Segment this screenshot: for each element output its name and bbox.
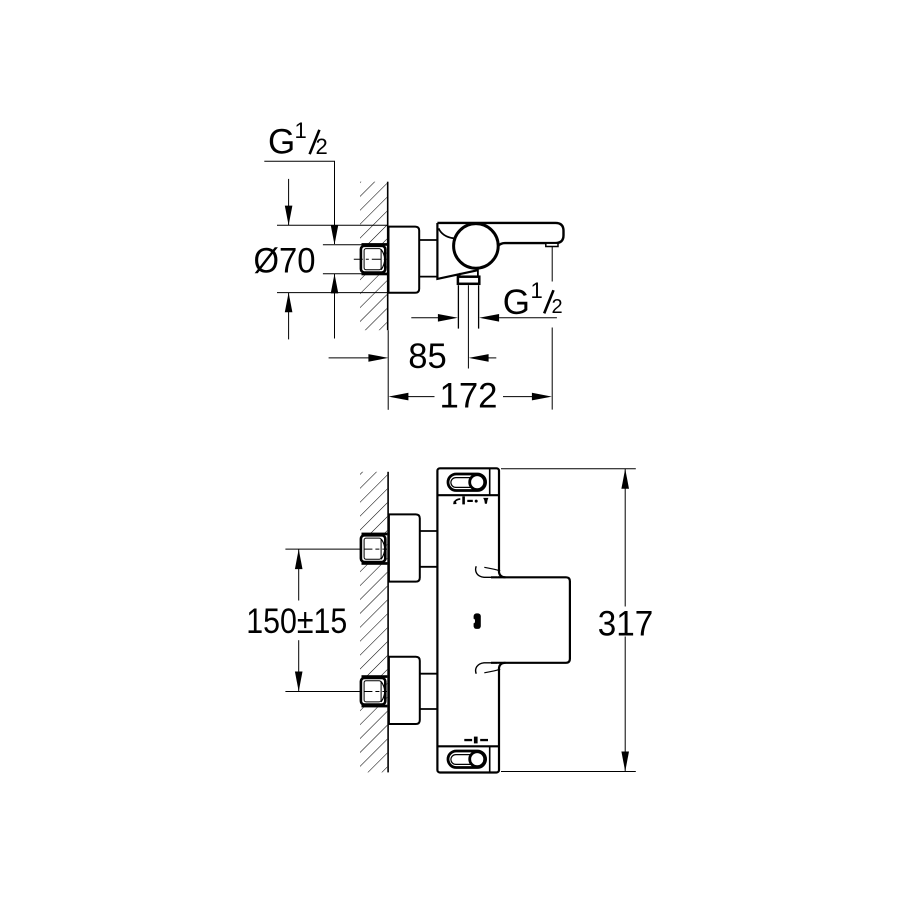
svg-text:172: 172 bbox=[440, 377, 498, 416]
inlet pipes between escutcheons and body bbox=[420, 530, 438, 532]
svg-text:1: 1 bbox=[531, 278, 543, 303]
wall extension line down to 172 dimension bbox=[388, 330, 389, 410]
leader line for G 1/2 top bbox=[264, 161, 334, 244]
Ø70 top arrow bbox=[288, 179, 290, 225]
erase body edge at T junction, draw corner fillets bbox=[497, 571, 500, 576]
temperature mark (black crescent) bbox=[474, 613, 481, 629]
G1/2 outlet dimension arrows bbox=[411, 317, 438, 319]
thermostat knob (circle, top view) bbox=[454, 224, 499, 269]
svg-text:1: 1 bbox=[295, 118, 307, 143]
toggle slider (bottom cap) bbox=[448, 751, 486, 768]
connecting pipe between escutcheon and body bbox=[419, 239, 437, 241]
icon row under top cap bbox=[454, 499, 460, 504]
svg-text:85: 85 bbox=[408, 337, 447, 376]
escutcheon top (bottom view) bbox=[389, 514, 420, 581]
wall face line (top view) bbox=[387, 182, 389, 331]
svg-text:2: 2 bbox=[552, 296, 563, 318]
cap divider verticals bbox=[489, 468, 491, 495]
lever / spout (top view) bbox=[437, 223, 563, 246]
317 dimension bbox=[501, 468, 636, 470]
eco icon above bottom cap bbox=[464, 739, 472, 741]
T-shaped spout housing (bottom view) bbox=[491, 577, 570, 663]
svg-text:150±15: 150±15 bbox=[246, 602, 347, 641]
centre/extension line through bottom nut (150 dim) bbox=[285, 691, 387, 693]
extension line nut bottom bbox=[323, 273, 387, 275]
escutcheon (wall flange, top view) bbox=[389, 227, 420, 293]
extension line escutcheon top bbox=[277, 224, 387, 226]
aerator nozzle under spout bbox=[546, 243, 558, 246]
G1/2 lower arrow (pointing up to nut bottom) bbox=[334, 274, 336, 339]
top cap separator bbox=[437, 494, 499, 496]
Ø70 bottom arrow bbox=[288, 293, 290, 340]
centre/extension line through top nut (150 dim) bbox=[285, 548, 387, 550]
main body (bottom view) bbox=[437, 468, 499, 772]
toggle slider (top cap) bbox=[448, 474, 486, 491]
svg-text:G: G bbox=[503, 283, 530, 322]
svg-text:Ø70: Ø70 bbox=[254, 242, 316, 281]
extension line nut top bbox=[323, 244, 387, 246]
extension line escutcheon bottom bbox=[277, 292, 387, 294]
top wing curve bbox=[476, 566, 492, 577]
bottom cap separator bbox=[437, 745, 499, 747]
outlet centre extension line bbox=[467, 285, 469, 368]
escutcheon bottom (bottom view) bbox=[389, 657, 420, 724]
centre line (dash-dot) through nut, top view bbox=[354, 258, 387, 260]
S-union nut bottom (bottom view) bbox=[361, 675, 388, 707]
collar stubs above outlet nut bbox=[477, 268, 479, 275]
wall hatching (top view) bbox=[360, 182, 387, 331]
shower outlet nut bbox=[458, 277, 479, 284]
svg-text:2: 2 bbox=[316, 134, 328, 159]
outlet pipe bbox=[457, 285, 459, 328]
S-union nut top (bottom view) bbox=[361, 533, 388, 565]
wall hatching (bottom view) bbox=[360, 472, 387, 773]
svg-text:G: G bbox=[268, 122, 295, 161]
nozzle extension line down to 172 dimension bbox=[551, 247, 553, 282]
wall face line (bottom view) bbox=[387, 472, 389, 773]
concave fillet body top to knob bbox=[439, 228, 454, 238]
faucet body block (top view) bbox=[437, 223, 478, 279]
bottom wing curve bbox=[476, 663, 492, 674]
